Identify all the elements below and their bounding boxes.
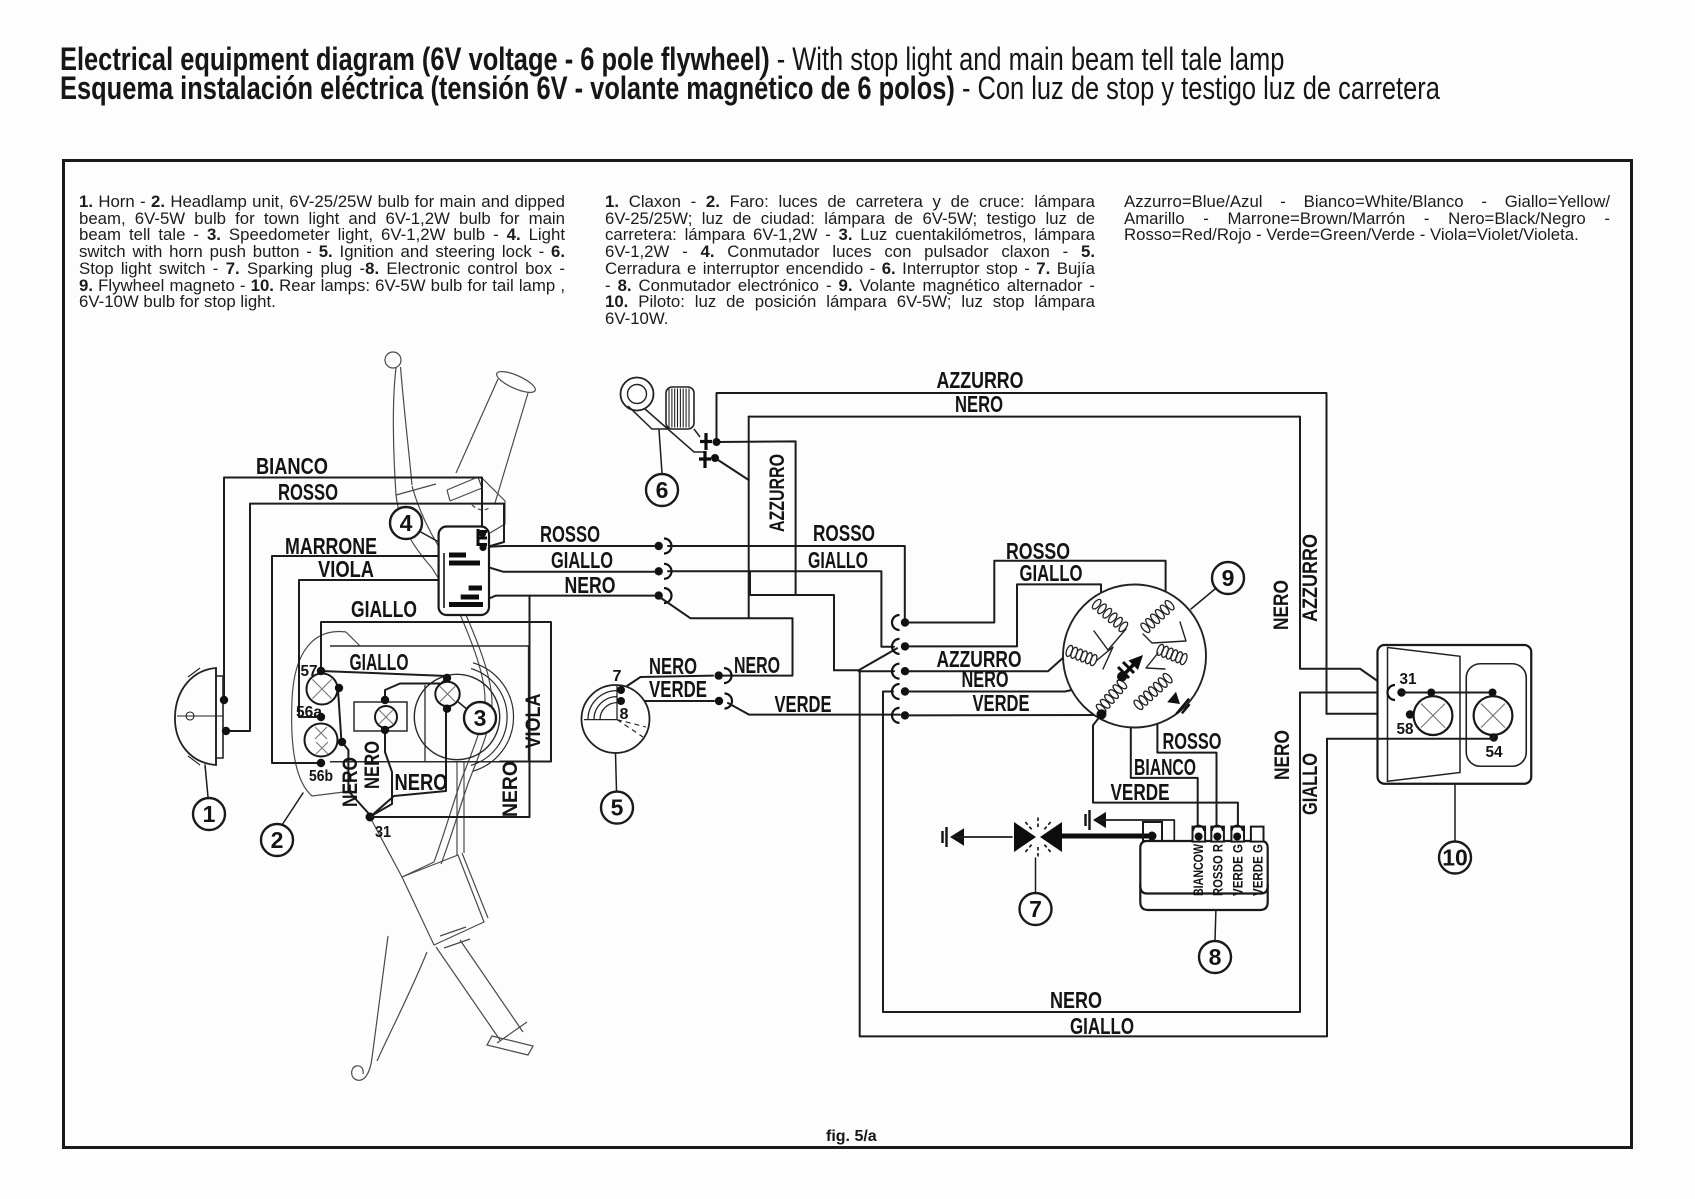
label circle 8	[1214, 910, 1217, 941]
terminal 31 rear	[1388, 685, 1395, 700]
wire MARRONE	[272, 556, 438, 763]
label circle 4	[419, 531, 437, 541]
svg-text:ROSSO R: ROSSO R	[1211, 844, 1226, 896]
label circle 1	[193, 798, 225, 830]
light switch 4	[439, 527, 489, 616]
wire NERO bulb 57	[338, 690, 342, 742]
svg-text:VERDE: VERDE	[649, 676, 707, 702]
svg-text:GIALLO: GIALLO	[1070, 1013, 1134, 1039]
wire BIANCO magneto to box	[1131, 679, 1198, 830]
svg-text:3: 3	[474, 705, 487, 731]
svg-text:NERO: NERO	[1270, 580, 1293, 630]
svg-text:NERO: NERO	[1271, 730, 1294, 780]
svg-text:VERDE: VERDE	[973, 690, 1030, 716]
wire NERO town bulb	[371, 730, 392, 816]
speedometer dial	[414, 674, 499, 759]
svg-text:VIOLA: VIOLA	[522, 694, 545, 749]
svg-text:ROSSO: ROSSO	[813, 520, 875, 546]
node magneto center	[1117, 672, 1127, 682]
wire ROSSO connector to magneto	[909, 561, 1166, 623]
stop light switch 6	[621, 378, 654, 411]
svg-text:AZZURRO: AZZURRO	[937, 367, 1024, 393]
node VERDE magneto terminal	[1097, 709, 1107, 719]
svg-text:BIANCO: BIANCO	[256, 453, 328, 479]
wire BIANCO horn-switch	[224, 478, 482, 701]
coil left	[1065, 644, 1074, 657]
svg-text:54: 54	[1486, 744, 1503, 761]
svg-text:VIOLA: VIOLA	[318, 556, 374, 582]
wire AZZURRO connector to magneto	[909, 657, 1064, 671]
wire GIALLO to rear lamp 54	[860, 670, 1327, 1036]
svg-text:56b: 56b	[309, 768, 333, 785]
node 58	[1406, 710, 1414, 718]
wire AZZURRO to dot 58	[1327, 713, 1407, 715]
label circle 3	[457, 701, 468, 710]
HT terminal box	[1143, 822, 1162, 841]
label circle 10	[1454, 784, 1456, 841]
scooter handlebar silhouette	[385, 352, 401, 368]
magneto center arrow	[1122, 663, 1135, 677]
horn 1	[175, 668, 216, 765]
svg-text:NERO: NERO	[499, 761, 522, 817]
svg-text:56a: 56a	[296, 704, 322, 721]
svg-text:NERO: NERO	[1050, 987, 1102, 1013]
svg-text:58: 58	[1397, 721, 1414, 738]
svg-text:8: 8	[620, 706, 629, 723]
wire NERO switch to connector	[483, 596, 654, 601]
wire AZZURRO stop switch to lamp	[717, 393, 1327, 714]
coil right	[1156, 643, 1165, 656]
svg-text:NERO: NERO	[339, 757, 362, 807]
wire VIOLA left	[299, 580, 438, 717]
svg-text:NERO: NERO	[395, 769, 448, 795]
coil bottom-left	[1095, 703, 1107, 715]
svg-text:57: 57	[301, 663, 318, 680]
label circle 6	[659, 430, 662, 473]
svg-text:ROSSO: ROSSO	[540, 521, 600, 547]
svg-text:GIALLO: GIALLO	[351, 596, 417, 622]
svg-text:BIANCO: BIANCO	[1134, 754, 1196, 780]
connector NERO ignition	[715, 671, 723, 679]
svg-text:ROSSO: ROSSO	[1163, 728, 1222, 754]
wire ROSSO horn-switch	[226, 504, 504, 731]
svg-text:8: 8	[1209, 944, 1222, 970]
wire VERDE magneto to box	[1093, 714, 1238, 830]
wire GIALLO switch to connector	[481, 565, 654, 572]
svg-text:1: 1	[203, 801, 216, 827]
svg-text:NERO: NERO	[734, 652, 780, 678]
svg-text:AZZURRO: AZZURRO	[766, 454, 789, 532]
svg-text:2: 2	[271, 827, 284, 853]
wire GIALLO to connector 2	[668, 571, 894, 646]
magneto inner ground arrow	[1167, 692, 1180, 704]
connector column dots	[892, 615, 899, 630]
wire GIALLO connector to magneto	[909, 584, 1101, 646]
wire NERO bulb 56	[342, 742, 370, 815]
svg-text:9: 9	[1222, 565, 1235, 591]
coil bottom-right	[1132, 699, 1144, 711]
connector VERDE ignition	[715, 697, 723, 705]
svg-text:VERDE: VERDE	[1111, 779, 1170, 805]
wire NERO connector to magneto center	[909, 677, 1121, 692]
connector GIALLO switch	[655, 567, 663, 575]
svg-text:GIALLO: GIALLO	[350, 649, 409, 675]
rear bulb stop	[1474, 696, 1513, 735]
svg-text:GIALLO: GIALLO	[808, 547, 868, 573]
svg-text:GIALLO: GIALLO	[551, 547, 613, 573]
flywheel magneto 9	[1063, 585, 1206, 728]
svg-text:NERO: NERO	[955, 391, 1003, 417]
connector ROSSO switch	[655, 542, 663, 550]
svg-text:AZZURRO: AZZURRO	[1299, 534, 1322, 622]
svg-text:VERDE: VERDE	[775, 691, 832, 717]
svg-text:NERO: NERO	[361, 741, 384, 789]
svg-text:31: 31	[1400, 671, 1417, 688]
svg-text:4: 4	[400, 510, 413, 536]
wire GIALLO to speedo bulb	[321, 671, 447, 676]
wire ROSSO magneto to box	[1136, 708, 1217, 830]
bulb 56 twin filament	[305, 724, 338, 757]
coil top-right	[1139, 622, 1151, 634]
connector NERO switch	[655, 591, 663, 599]
svg-text:VERDE G: VERDE G	[1231, 844, 1246, 896]
town light box	[354, 702, 407, 731]
svg-text:NERO: NERO	[962, 666, 1009, 692]
wire ROSSO switch to connector	[483, 546, 654, 547]
svg-text:GIALLO: GIALLO	[1299, 753, 1322, 815]
bulb town light	[375, 706, 397, 728]
wire NERO speedo bulb	[370, 709, 446, 817]
rear bulb tail	[1414, 696, 1453, 735]
ignition switch 5	[582, 685, 650, 753]
svg-text:ROSSO: ROSSO	[278, 479, 338, 505]
electronic control box 8	[1140, 841, 1267, 894]
bulb 57 main beam	[307, 674, 338, 705]
node 54	[1490, 733, 1498, 741]
headlamp cluster box	[330, 646, 529, 762]
label circle 9	[1191, 589, 1215, 609]
svg-text:5: 5	[611, 795, 624, 821]
stop switch contacts	[700, 433, 712, 450]
wire NERO connector detour	[661, 598, 793, 676]
wire GIALLO tee detour	[750, 571, 834, 670]
svg-text:7: 7	[613, 668, 622, 685]
svg-text:31: 31	[375, 824, 391, 841]
svg-text:10: 10	[1442, 845, 1468, 871]
wire AZZURRO stop switch vertical	[717, 441, 796, 595]
svg-text:BIANCOW: BIANCOW	[1191, 844, 1206, 896]
svg-text:7: 7	[1029, 896, 1042, 922]
label circle 7	[1035, 858, 1037, 892]
wire NERO bottom to lamp 31	[883, 692, 1394, 1013]
coil top-left	[1091, 598, 1103, 610]
wire NERO ground bus to switch	[370, 596, 530, 817]
wire bus junction branches	[834, 648, 897, 670]
svg-text:VERDE G: VERDE G	[1251, 844, 1266, 896]
rear lamp unit 10	[1378, 645, 1532, 784]
spark plug HT lead (thick)	[1055, 834, 1148, 839]
wire VERDE to magneto connector	[728, 703, 900, 715]
bulb speedometer light	[435, 682, 459, 706]
wire ROSSO to magneto connector	[668, 546, 905, 618]
wire NERO ignition	[621, 676, 713, 690]
sparking plug 7	[950, 828, 964, 845]
node 31 headlamp junction	[366, 813, 375, 822]
ground arrow 2	[1093, 812, 1106, 828]
label circle 5	[616, 753, 617, 791]
svg-text:6: 6	[656, 477, 669, 503]
wire GIALLO headlamp loop	[321, 622, 551, 762]
label circle 2	[282, 793, 303, 825]
switch top connector	[478, 529, 487, 546]
border frame	[64, 161, 1632, 1148]
wire VERDE connector to magneto	[909, 714, 1098, 716]
wire NERO stop switch	[715, 458, 749, 480]
svg-text:NERO: NERO	[565, 572, 616, 598]
svg-text:GIALLO: GIALLO	[1020, 560, 1083, 586]
wire VERDE ignition	[621, 700, 714, 702]
